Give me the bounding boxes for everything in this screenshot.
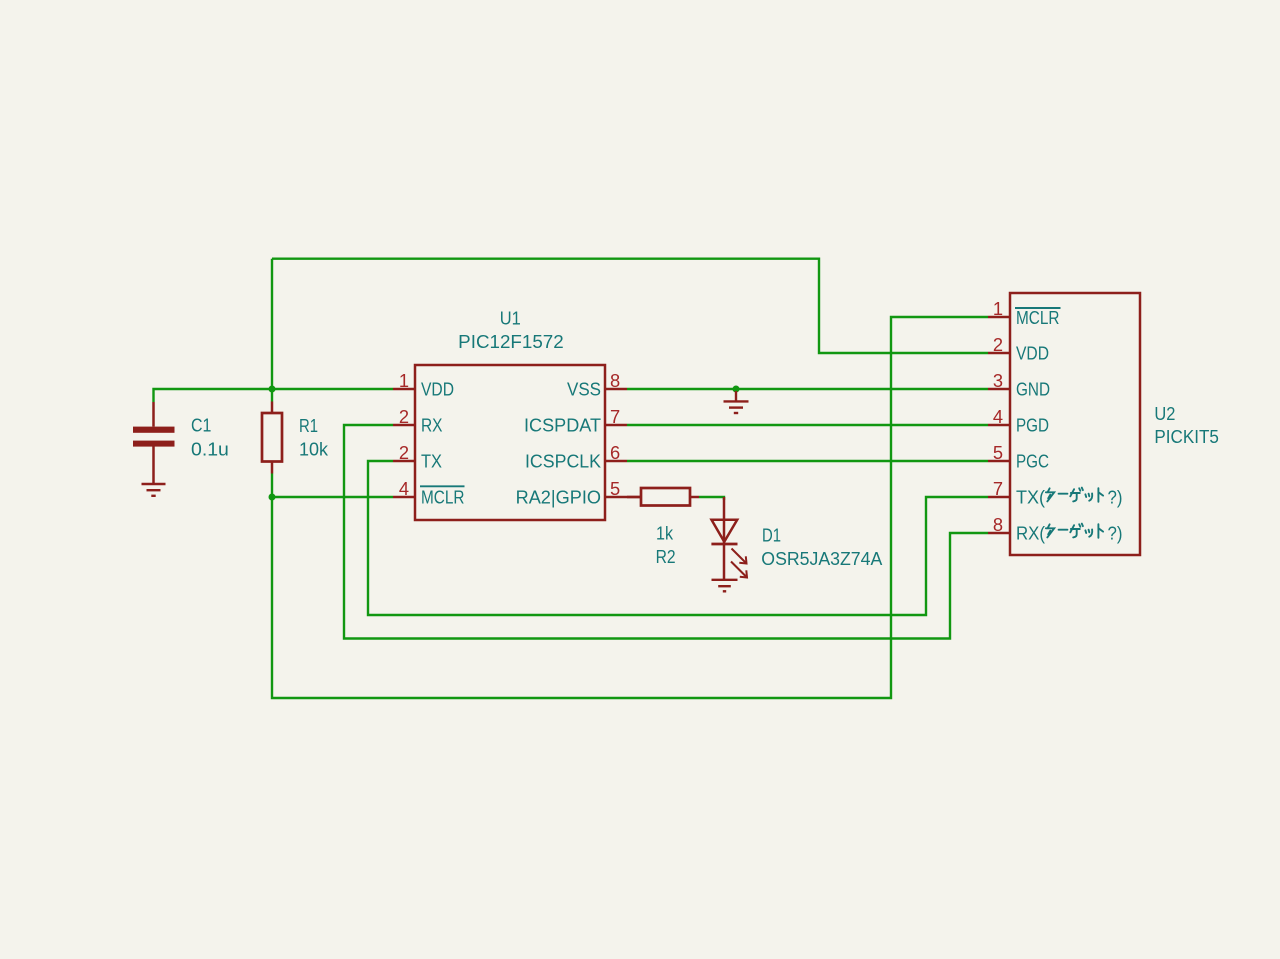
ground symbol at D1 cathode: [712, 580, 738, 592]
IC U1 body: [415, 365, 605, 520]
junction at R1 top / VDD: [269, 386, 276, 393]
katakana long vowel mark: [1059, 493, 1068, 495]
U2 pin 4 PGD: [988, 424, 1010, 427]
svg-text:PGD: PGD: [1016, 415, 1049, 436]
svg-text:2: 2: [993, 334, 1003, 355]
wire VDD net: top horizontal run to U2 VDD: [272, 259, 988, 353]
katakana TO: [1098, 488, 1103, 502]
junction at R1 bottom / MCLR: [269, 494, 276, 501]
wire TX net: U1 TX down and across to U2 pin7: [368, 461, 988, 615]
svg-text:PICKIT5: PICKIT5: [1154, 426, 1219, 447]
katakana TA: [1046, 488, 1054, 501]
U2 pin 8 RX(target?): [988, 532, 1010, 535]
svg-text:VDD: VDD: [421, 379, 454, 400]
svg-text:?): ?): [1108, 523, 1123, 544]
svg-text:TX: TX: [421, 451, 442, 472]
katakana GE: [1070, 524, 1083, 538]
katakana long vowel mark: [1059, 529, 1068, 531]
svg-text:GND: GND: [1016, 379, 1050, 400]
svg-text:RX: RX: [421, 415, 443, 436]
wire GND net: U1 VSS to U2 GND: [627, 388, 988, 390]
svg-text:VSS: VSS: [567, 379, 601, 400]
svg-text:10k: 10k: [299, 439, 329, 460]
wire VDD net: vertical from junction up to top run: [271, 259, 273, 389]
U2 pin 3 GND: [988, 388, 1010, 391]
U1 pin 7 ICSPDAT: [605, 424, 627, 427]
svg-text:PIC12F1572: PIC12F1572: [458, 331, 564, 352]
U2 pin 7 TX(target?): [988, 496, 1010, 499]
svg-text:?): ?): [1108, 487, 1123, 508]
svg-text:2: 2: [399, 442, 409, 463]
svg-text:MCLR: MCLR: [1016, 307, 1060, 328]
svg-text:U2: U2: [1154, 403, 1175, 424]
svg-text:7: 7: [610, 406, 620, 427]
svg-text:5: 5: [993, 442, 1003, 463]
wire ICSPDAT net: U1 pin7 to U2 PGD: [627, 424, 988, 426]
katakana small TSU: [1085, 493, 1092, 500]
LED D1 emission arrows: [731, 549, 747, 578]
katakana TO: [1098, 524, 1103, 538]
capacitor C1: [133, 402, 175, 484]
svg-text:RA2|GPIO: RA2|GPIO: [516, 487, 601, 508]
wire MCLR net: bottom run to U2 pin1: [272, 317, 988, 698]
svg-text:RX(: RX(: [1016, 523, 1045, 544]
U2 pin 5 PGC: [988, 460, 1010, 463]
svg-text:1: 1: [993, 298, 1003, 319]
svg-text:8: 8: [993, 514, 1003, 535]
U1 pin 8 VSS: [605, 388, 627, 391]
U2 pin 2 VDD: [988, 352, 1010, 355]
ground symbol at VSS net: [724, 391, 749, 413]
svg-text:ICSPDAT: ICSPDAT: [524, 415, 601, 436]
svg-text:PGC: PGC: [1016, 451, 1049, 472]
svg-text:6: 6: [610, 442, 620, 463]
svg-text:TX(: TX(: [1016, 487, 1045, 508]
svg-text:ICSPCLK: ICSPCLK: [525, 451, 601, 472]
svg-text:2: 2: [399, 406, 409, 427]
U1 pin 5 RA2|GPIO: [605, 496, 641, 499]
wire VDD net: R1 top stub connection: [271, 389, 273, 402]
svg-text:1: 1: [399, 370, 409, 391]
svg-text:C1: C1: [191, 415, 211, 436]
svg-text:1k: 1k: [656, 523, 674, 544]
katakana TA: [1046, 524, 1054, 537]
connector U2 body: [1010, 293, 1140, 555]
U1 pin 1 VDD: [393, 388, 415, 391]
resistor R2: [627, 488, 699, 506]
LED D1: [711, 497, 737, 580]
svg-text:U1: U1: [500, 308, 521, 329]
resistor R1: [262, 402, 282, 474]
wire RX net: U1 RX down and across to U2 pin8: [344, 425, 988, 639]
svg-text:5: 5: [610, 478, 620, 499]
svg-text:R2: R2: [656, 546, 676, 567]
wire ICSPCLK net: U1 pin6 to U2 PGC: [627, 460, 988, 462]
svg-text:4: 4: [993, 406, 1003, 427]
svg-text:3: 3: [993, 370, 1003, 391]
U1 pin 2 RX: [393, 424, 415, 427]
U2 pin 1 MCLR with overbar: [988, 316, 1010, 319]
U1 pin 4 MCLR with overbar: [393, 496, 415, 499]
svg-text:7: 7: [993, 478, 1003, 499]
junction at VSS ground tap: [733, 386, 740, 393]
ground symbol at C1: [142, 484, 166, 496]
katakana GE: [1070, 488, 1083, 502]
svg-text:MCLR: MCLR: [421, 487, 465, 508]
svg-text:OSR5JA3Z74A: OSR5JA3Z74A: [761, 548, 883, 569]
svg-text:4: 4: [399, 478, 409, 499]
U1 pin 6 ICSPCLK: [605, 460, 627, 463]
svg-text:D1: D1: [762, 524, 781, 545]
U1 pin 3 TX (numbered 2): [393, 460, 415, 463]
svg-text:R1: R1: [299, 415, 318, 436]
svg-text:8: 8: [610, 370, 620, 391]
wire MCLR net: R1 bottom to U1 MCLR pin: [272, 474, 393, 498]
wire RA2 net: R2 to D1 anode: [699, 497, 724, 500]
svg-text:VDD: VDD: [1016, 343, 1049, 364]
wire VDD net: C1 top to U1 pin1: [154, 389, 394, 402]
svg-text:0.1u: 0.1u: [191, 439, 229, 460]
katakana small TSU: [1085, 529, 1092, 536]
